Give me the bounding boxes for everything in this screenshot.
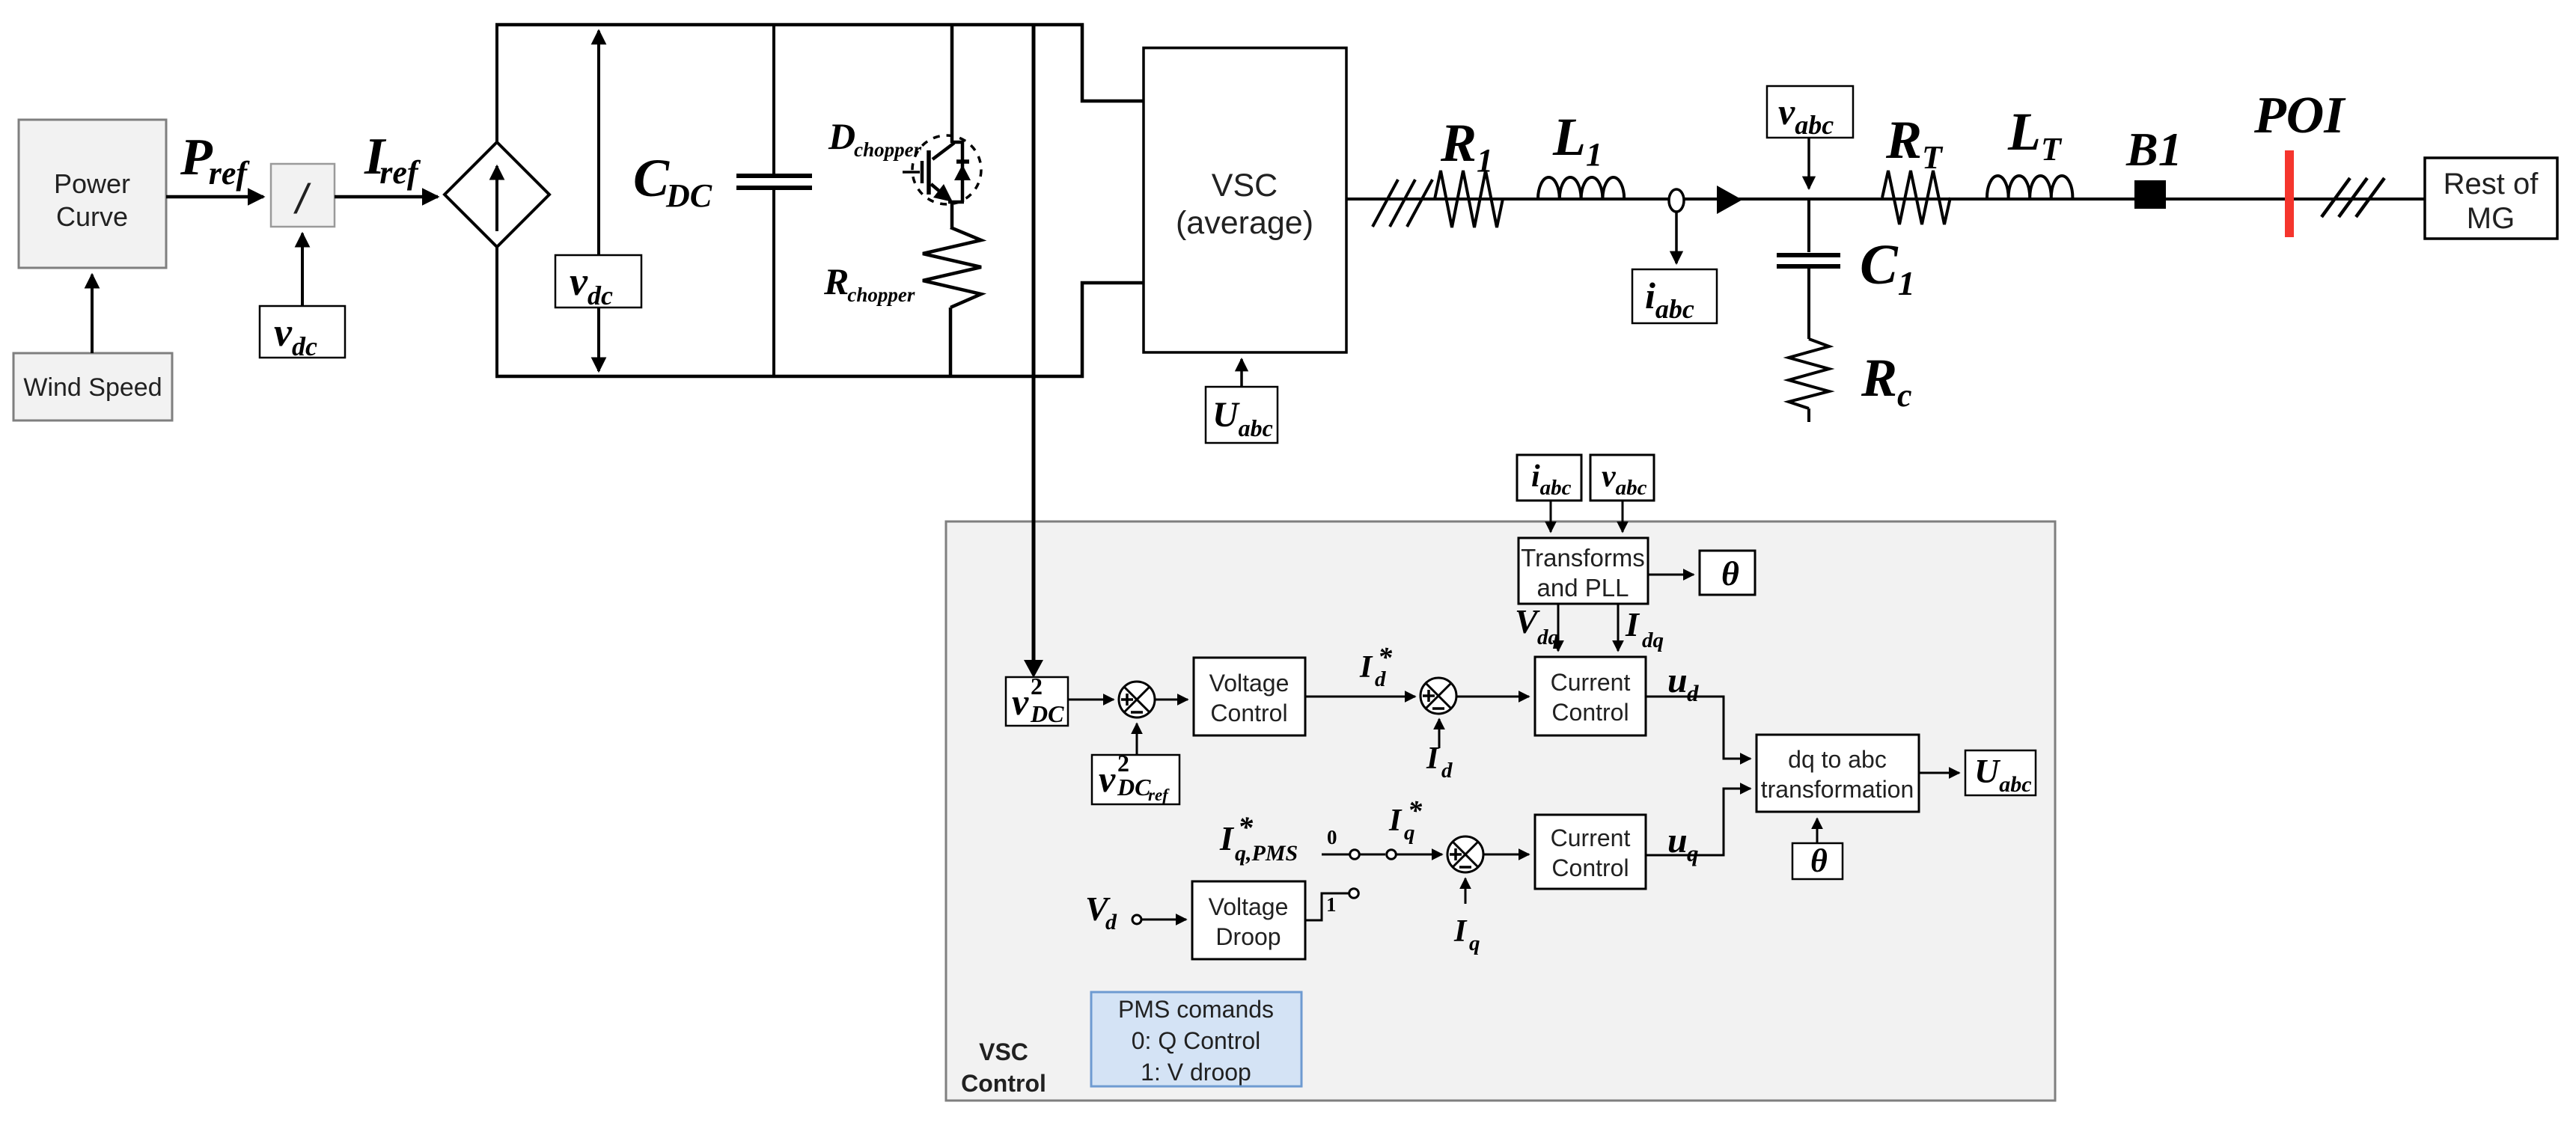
svg-text:Control: Control	[1551, 699, 1629, 726]
svg-text:0: Q Control: 0: Q Control	[1132, 1027, 1261, 1054]
svg-text:I: I	[1388, 804, 1403, 838]
svg-text:Wind Speed: Wind Speed	[23, 373, 162, 402]
svg-text:q: q	[1469, 931, 1480, 955]
svg-text:*: *	[1378, 642, 1393, 673]
svg-text:DC: DC	[1030, 700, 1064, 727]
svg-text:Current: Current	[1551, 824, 1631, 851]
svg-text:dq: dq	[1537, 625, 1559, 649]
svg-text:*: *	[1408, 795, 1423, 827]
svg-text:2: 2	[1031, 673, 1043, 700]
svg-text:1: 1	[1326, 893, 1337, 916]
svg-text:v: v	[1099, 758, 1116, 800]
svg-text:(average): (average)	[1176, 205, 1313, 241]
svg-text:θ: θ	[1810, 842, 1828, 879]
svg-text:Control: Control	[1551, 854, 1629, 881]
svg-text:MG: MG	[2467, 202, 2515, 235]
svg-text:Rest of: Rest of	[2444, 168, 2539, 201]
svg-text:u: u	[1667, 821, 1688, 860]
svg-text:VSC: VSC	[979, 1038, 1028, 1065]
svg-text:2: 2	[1117, 750, 1129, 777]
svg-text:Curve: Curve	[56, 201, 128, 232]
svg-text:dq: dq	[1642, 628, 1664, 652]
svg-text:PMS comands: PMS comands	[1118, 996, 1274, 1023]
svg-text:Voltage: Voltage	[1209, 670, 1289, 697]
svg-text:transformation: transformation	[1761, 776, 1914, 803]
svg-text:I: I	[1453, 914, 1468, 949]
svg-text:*: *	[1238, 810, 1254, 844]
svg-text:Power: Power	[54, 168, 130, 199]
svg-text:Control: Control	[961, 1070, 1046, 1097]
svg-text:and PLL: and PLL	[1537, 574, 1629, 602]
svg-text:dq to abc: dq to abc	[1788, 746, 1887, 773]
svg-text:Voltage: Voltage	[1209, 893, 1289, 920]
svg-text:I: I	[1426, 741, 1440, 776]
svg-text:V: V	[1515, 602, 1540, 640]
svg-text:Transforms: Transforms	[1521, 544, 1645, 572]
svg-text:d: d	[1105, 910, 1117, 934]
svg-text:q,PMS: q,PMS	[1235, 841, 1298, 866]
svg-text:POI: POI	[2253, 87, 2346, 144]
svg-text:v: v	[1012, 681, 1029, 723]
svg-text:Droop: Droop	[1215, 923, 1281, 950]
svg-text:Current: Current	[1551, 669, 1631, 696]
svg-text:0: 0	[1327, 826, 1337, 848]
svg-text:d: d	[1687, 680, 1699, 706]
svg-text:Control: Control	[1210, 700, 1287, 726]
svg-text:θ: θ	[1721, 554, 1739, 593]
svg-text:ref: ref	[1148, 786, 1170, 804]
svg-text:DC: DC	[1117, 774, 1151, 801]
svg-text:VSC: VSC	[1212, 168, 1278, 204]
svg-text:d: d	[1441, 759, 1453, 783]
svg-text:1: V droop: 1: V droop	[1141, 1059, 1251, 1086]
svg-text:I: I	[1625, 605, 1640, 643]
svg-text:I: I	[1359, 650, 1373, 685]
svg-text:u: u	[1667, 661, 1688, 700]
svg-text:q: q	[1687, 840, 1699, 866]
svg-text:B1: B1	[2125, 123, 2182, 176]
svg-text:I: I	[1219, 819, 1235, 857]
